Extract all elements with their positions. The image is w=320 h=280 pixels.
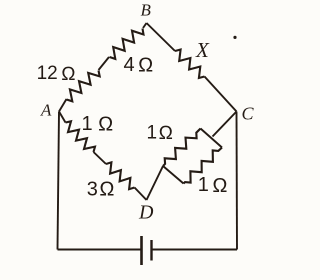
value label 1 ohm (A-D arm) <box>82 113 114 136</box>
wire battery to bottom right <box>153 249 238 251</box>
svg-text:1: 1 <box>82 113 93 135</box>
stray ink dot <box>233 36 236 39</box>
svg-text:A: A <box>40 101 52 120</box>
wire node A down left side <box>58 112 60 250</box>
value label 4 ohm <box>124 54 154 76</box>
wire resistor X to node C <box>205 77 237 112</box>
wire left corner to bottom corner of parallel pair <box>163 166 184 184</box>
svg-text:Ω: Ω <box>138 54 153 76</box>
svg-text:Ω: Ω <box>99 179 114 201</box>
resistor 1 ohm (lower of parallel pair) <box>184 148 223 184</box>
resistor 3 ohm <box>106 162 135 189</box>
svg-text:Ω: Ω <box>61 64 76 85</box>
svg-text:X: X <box>195 38 210 62</box>
resistor 4 ohm <box>110 29 144 59</box>
value label 3 ohm <box>87 178 115 200</box>
resistor 12 ohm <box>67 71 100 102</box>
resistor 1 ohm (A-D arm) <box>66 121 96 152</box>
battery cell left plate <box>140 236 143 265</box>
svg-text:C: C <box>242 103 255 123</box>
wire top corner to right corner of parallel pair <box>201 129 223 148</box>
svg-text:3: 3 <box>87 178 98 200</box>
value label 12 ohm <box>37 63 76 85</box>
svg-text:Ω: Ω <box>159 123 174 144</box>
wire node A to 1-ohm resistor <box>59 112 66 123</box>
wire right side up to node C <box>236 112 239 250</box>
wire bottom left to battery <box>58 249 141 251</box>
wire 4-ohm resistor to node B <box>143 23 147 28</box>
svg-text:1: 1 <box>198 174 209 196</box>
wire node D to parallel pair <box>147 166 164 200</box>
wire node B to resistor X <box>147 23 176 51</box>
wire 3-ohm resistor to node D <box>135 188 147 201</box>
resistor X <box>175 50 205 79</box>
svg-text:D: D <box>138 202 154 224</box>
wire parallel pair to node C <box>213 112 237 137</box>
svg-text:1: 1 <box>147 122 158 143</box>
svg-text:12: 12 <box>37 63 58 84</box>
resistor 1 ohm (upper of parallel pair) <box>163 129 201 167</box>
value label 1 ohm (lower parallel) <box>198 174 228 197</box>
svg-text:B: B <box>141 0 152 19</box>
wire between 1-ohm and 3-ohm resistors <box>94 152 107 164</box>
wire A to 12-ohm resistor <box>59 99 67 112</box>
wire between 12-ohm and 4-ohm resistors <box>99 57 110 70</box>
battery cell right plate <box>150 240 152 261</box>
svg-text:Ω: Ω <box>98 113 113 135</box>
value label 1 ohm (upper parallel) <box>147 122 174 144</box>
svg-text:4: 4 <box>124 54 135 76</box>
svg-text:Ω: Ω <box>212 175 227 197</box>
